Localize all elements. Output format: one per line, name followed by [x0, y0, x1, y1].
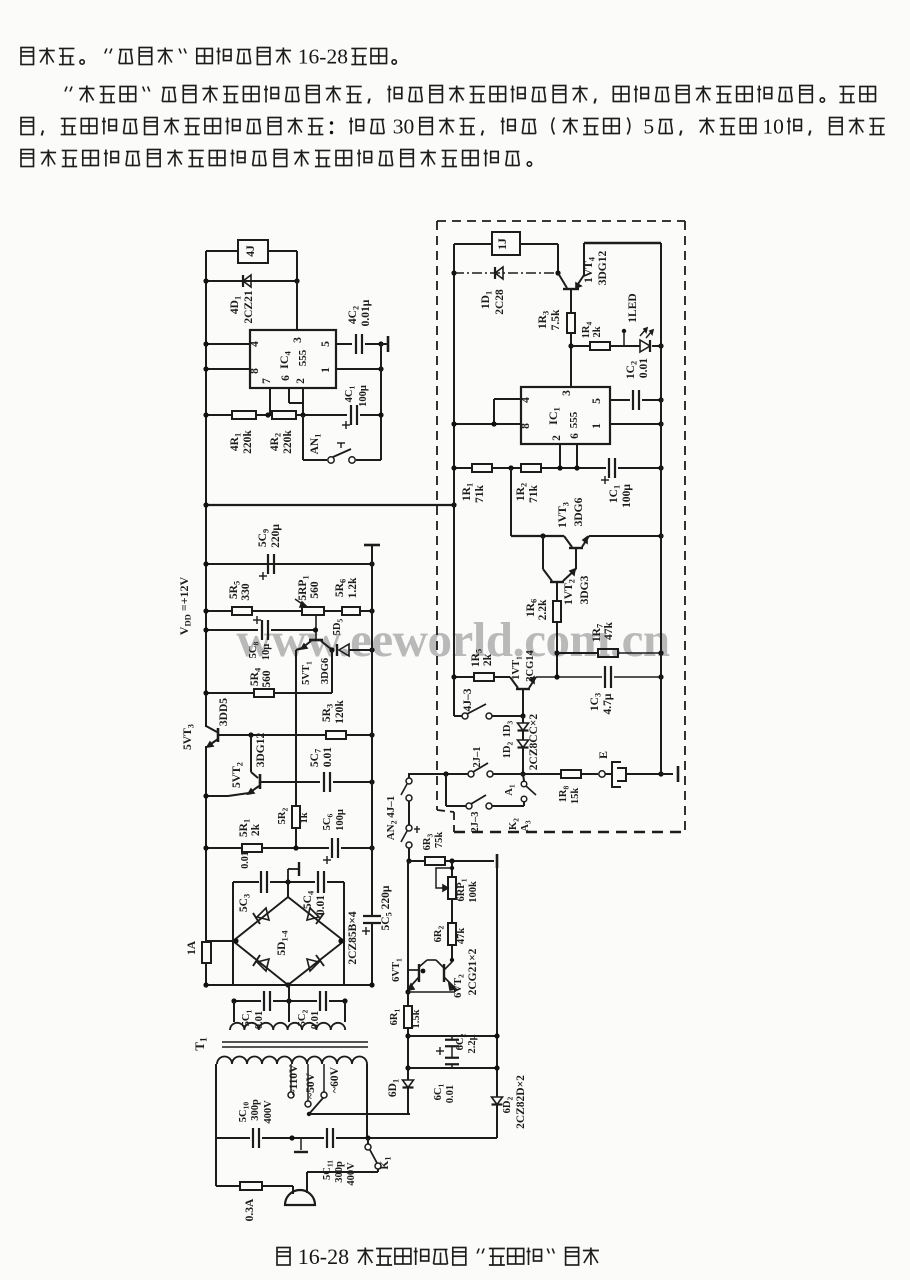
wire left rail upper	[205, 251, 207, 727]
wire pin4 of IC1	[494, 398, 521, 400]
capacitor 5C3 0.01	[260, 871, 262, 893]
svg-text:5: 5	[643, 115, 654, 139]
op-amp U: IC1 555 timer box	[521, 387, 610, 444]
diode 6D1	[403, 1080, 414, 1088]
resistor 6R1 1.5k	[404, 1006, 412, 1028]
node switch net	[520, 771, 525, 776]
resistor 4R2 220k	[272, 411, 296, 419]
wire 5R1 row	[206, 847, 242, 849]
svg-text:3: 3	[561, 390, 573, 396]
wire mains row	[216, 1137, 250, 1139]
wire diode row	[206, 280, 297, 282]
diode 6D2 2CZ82D x2	[492, 1097, 503, 1105]
node 6C2 row left	[405, 1033, 410, 1038]
svg-text:~110V: ~110V	[288, 1064, 300, 1096]
diamond of bridge 5D1-4	[233, 897, 344, 985]
node 4C1 right	[378, 412, 383, 417]
svg-text:E: E	[596, 751, 610, 759]
svg-text:1LED: 1LED	[627, 293, 639, 322]
svg-text:100μ: 100μ	[621, 484, 633, 508]
wire 5R4 row	[206, 692, 254, 694]
node rail left	[203, 502, 208, 507]
svg-text:220k: 220k	[282, 430, 294, 454]
wire secondary right drop	[344, 1001, 346, 1022]
node bridge top center	[285, 879, 290, 884]
LED arrows	[640, 329, 646, 336]
svg-text:100k: 100k	[468, 881, 479, 903]
svg-text:0.01: 0.01	[445, 1085, 456, 1103]
node pin2/4R2	[300, 412, 305, 417]
svg-text:4: 4	[520, 397, 532, 403]
node pin8/rail	[451, 421, 456, 426]
capacitor 5C10	[252, 1128, 254, 1148]
wire wiper to 6-section	[309, 1113, 410, 1115]
svg-text:1: 1	[591, 423, 603, 429]
fuse 0.3A	[240, 1182, 262, 1190]
wire 1R7 row	[557, 652, 598, 654]
relay 1J	[492, 232, 520, 255]
transformer T1 primary coil	[217, 1057, 367, 1065]
LED 1LED	[622, 329, 626, 333]
bridge box left edge	[232, 882, 234, 985]
wire 1R8 row	[523, 773, 561, 775]
node right leg row taps	[494, 1033, 499, 1038]
tap ~50V	[307, 1064, 309, 1101]
node 1C1 at rail	[658, 465, 663, 470]
node pin5 at rail	[658, 397, 663, 402]
resistor 6R3 75k	[425, 857, 445, 865]
svg-text:4.7μ: 4.7μ	[602, 693, 614, 714]
op-amp U: IC4 555 timer box	[250, 330, 336, 388]
capacitor 5C2 0.01	[319, 991, 321, 1011]
wire secondary filter row	[234, 1000, 261, 1002]
node 1R7 at rail	[658, 650, 663, 655]
svg-text:220k: 220k	[242, 430, 254, 454]
svg-text:0.01: 0.01	[322, 747, 334, 767]
resistor 1R5 2k	[474, 673, 494, 681]
wire pin3 of IC4	[296, 281, 298, 330]
diode 1D2	[522, 731, 524, 740]
svg-text:1J: 1J	[497, 238, 509, 250]
paragraph text line 3	[21, 118, 34, 135]
switch A1	[523, 774, 524, 781]
node row left at rail	[451, 465, 456, 470]
resistor 5R4 560	[254, 689, 274, 697]
node 1VT3 at rail	[658, 533, 663, 538]
transistor 1VT2 3DG3	[542, 536, 544, 569]
wire primary right leg	[366, 1064, 368, 1138]
wire pin4 of IC4	[206, 343, 250, 345]
svg-text:1k: 1k	[299, 812, 310, 823]
resistor 5R2 1k	[292, 806, 300, 828]
switch AN1 pushbutton	[328, 457, 334, 463]
svg-text:3DG12: 3DG12	[255, 733, 267, 768]
wire bridge left corner to rail	[206, 940, 233, 942]
node 5VT2 base tap	[248, 732, 253, 737]
node diode chain top	[520, 713, 525, 718]
svg-text:10μ: 10μ	[261, 644, 272, 661]
svg-text:AN2 4J–1: AN2 4J–1	[385, 796, 399, 841]
capacitor 6C2 2.2u	[445, 1039, 459, 1041]
bridge box right edge	[343, 882, 345, 985]
svg-text:2CZ85B×4: 2CZ85B×4	[347, 911, 359, 964]
diode 5D2 in bridge	[307, 908, 319, 920]
selector wiper	[309, 1098, 323, 1114]
node E at rail	[658, 771, 663, 776]
dashed enclosure right edge	[684, 221, 686, 832]
node sec mid	[286, 998, 291, 1003]
svg-text:3DD5: 3DD5	[218, 698, 230, 726]
wire plug to K1	[307, 1171, 378, 1173]
transistor 1VT4 3DG12	[563, 288, 579, 290]
capacitor 5C7 0.01	[323, 772, 325, 792]
svg-text:3DG6: 3DG6	[573, 497, 585, 526]
wire row continues to 1C3	[536, 676, 602, 678]
svg-text:0.01μ: 0.01μ	[360, 299, 372, 326]
svg-text:2k: 2k	[250, 823, 262, 836]
chassis ground right of E	[661, 773, 673, 775]
wire pin5 of IC4	[336, 343, 352, 345]
svg-text:1A: 1A	[186, 940, 198, 955]
svg-text:220μ: 220μ	[270, 524, 282, 548]
node 1C3 at rail	[658, 674, 663, 679]
svg-text:30: 30	[393, 115, 415, 139]
wire pin7 of IC4	[269, 388, 271, 415]
svg-text:2.2k: 2.2k	[537, 599, 549, 620]
node row at left rail	[451, 674, 456, 679]
transistor 1VT3 3DG6	[564, 536, 572, 547]
svg-text:2J–1: 2J–1	[472, 747, 483, 768]
diode 5D5	[336, 644, 338, 656]
transistor 5VT1 3DG6	[309, 639, 323, 642]
node 1R4 right at rail	[658, 343, 663, 348]
diode 5D3 in bridge	[257, 959, 269, 971]
svg-text:3DG12: 3DG12	[597, 251, 609, 286]
node 1VT4 base top	[555, 270, 560, 275]
wire right leg of 6-section	[496, 868, 498, 1097]
svg-text:560: 560	[261, 670, 273, 688]
diode 1D3	[522, 716, 524, 723]
node 4R1/4R2	[265, 412, 270, 417]
svg-text:100μ: 100μ	[358, 385, 369, 407]
node 5R1/5C6	[293, 845, 298, 850]
svg-text:3CG14: 3CG14	[525, 650, 536, 682]
wire pin2 of IC4	[302, 388, 304, 415]
wire 1J to 1VT4	[520, 243, 558, 245]
node 5C8 at base riser	[313, 627, 318, 632]
svg-text:3DG3: 3DG3	[579, 575, 591, 604]
node pin5 net	[378, 341, 383, 346]
wire mid rail x372	[371, 544, 373, 916]
svg-text:0.3A: 0.3A	[244, 1198, 256, 1221]
svg-text:2CZ21: 2CZ21	[243, 290, 255, 323]
tap ~60V	[323, 1064, 325, 1092]
node at x446	[443, 771, 448, 776]
svg-text:47k: 47k	[456, 928, 467, 945]
wire down to 6R1	[407, 992, 409, 1006]
resistor 5R3 120k	[326, 731, 346, 739]
svg-text:75k: 75k	[434, 832, 445, 849]
transistor 5VT2 3DG12	[250, 735, 252, 772]
svg-text:5C5 220μ: 5C5 220μ	[380, 885, 394, 930]
resistor 1R6 2.2k	[553, 601, 561, 622]
node 1R3/1R4/pin3	[568, 343, 573, 348]
node at rail/4D1	[203, 278, 208, 283]
wire 1R5/1VT1/1C3 row	[454, 676, 474, 678]
svg-text:300p: 300p	[250, 1099, 261, 1121]
wire pin6 of IC1	[576, 444, 578, 468]
svg-text:71k: 71k	[528, 484, 540, 503]
wire AN2 top row	[408, 773, 468, 775]
transformer T1 core lines	[222, 1041, 368, 1043]
potentiometer 5RP1 560	[302, 607, 324, 615]
node 1R1/1R2 junction	[508, 465, 513, 470]
diode 5D1 in bridge	[257, 908, 269, 920]
switch chain AN2 4J-1	[406, 778, 412, 784]
node rail/4R1	[203, 412, 208, 417]
svg-text:8: 8	[520, 423, 532, 429]
capacitor 5C9 220u	[267, 554, 269, 574]
svg-text:2k: 2k	[482, 653, 494, 666]
svg-text:330: 330	[240, 583, 252, 601]
ground stub right of 4C2	[381, 343, 388, 345]
transistor 5VT3 3DD5 (series pass)	[217, 728, 220, 742]
switch 2J-1	[468, 771, 474, 777]
svg-text:10: 10	[762, 115, 784, 139]
svg-text:~60V: ~60V	[329, 1066, 341, 1092]
mains plug	[285, 1190, 315, 1205]
resistor 5R6 1.2k	[342, 607, 360, 615]
capacitor 5C5 220u	[363, 915, 381, 917]
svg-text:~50V: ~50V	[305, 1072, 317, 1098]
svg-text:16-28: 16-28	[298, 1244, 349, 1269]
wire diamond top to box	[287, 882, 289, 897]
node 5VT2 emitter at rail	[203, 793, 208, 798]
wire 4J top left	[206, 250, 238, 252]
wire pin8 of IC4	[206, 368, 250, 370]
wire to lower switch	[445, 774, 447, 806]
tap ~110V	[290, 1064, 292, 1092]
node 5VT1 collector/diode	[329, 647, 334, 652]
svg-text:2k: 2k	[592, 326, 603, 337]
wire 6R3 row	[408, 860, 425, 862]
diode 5D4 in bridge	[307, 959, 319, 971]
diode 1D1 2C28	[495, 267, 503, 279]
node 1VT2 base riser	[540, 533, 545, 538]
svg-text:4J–3: 4J–3	[462, 688, 474, 711]
wire AN1 row	[302, 415, 304, 460]
wire bridge to secondary center	[288, 986, 290, 1022]
svg-text:7: 7	[261, 378, 273, 384]
wire 1VT3 collector row right	[589, 535, 661, 537]
capacitor 4C2 0.01u	[355, 334, 357, 354]
node 6VT1 collector	[421, 969, 426, 974]
wire 5R5 row	[206, 610, 232, 612]
ground stub below mains row	[300, 1138, 302, 1150]
wire left rail lower	[205, 746, 207, 942]
capacitor 5C6 100u	[331, 838, 333, 858]
node pin2 tap	[557, 465, 562, 470]
node at 4D1/pin3	[294, 278, 299, 283]
node 6R2 bottom	[450, 958, 454, 962]
wire 5VT1 emitter vertical	[295, 650, 297, 806]
pushbutton bar of AN2	[414, 828, 420, 830]
transformer T1 secondary coil	[230, 1023, 345, 1030]
svg-text:2: 2	[551, 435, 563, 441]
svg-text:100μ: 100μ	[335, 809, 346, 831]
node 6RP1 top tap	[450, 866, 454, 870]
wire 1VT3 collector row left	[511, 535, 564, 537]
svg-text:71k: 71k	[474, 484, 486, 503]
svg-text:2CZ82D×2: 2CZ82D×2	[515, 1075, 527, 1129]
capacitor 1C2 0.01	[632, 390, 634, 410]
transistor 6VT2	[443, 964, 445, 982]
electrode E terminal	[599, 771, 605, 777]
node 6R3/6RP1	[449, 858, 454, 863]
wire 5C9 row	[206, 563, 372, 565]
svg-text:3: 3	[292, 337, 304, 343]
node 1R6 bottom tap	[554, 674, 559, 679]
wire 1R1 junction down to 1VT2 base	[510, 468, 512, 536]
svg-text:120k: 120k	[334, 700, 346, 724]
svg-text:2J–3: 2J–3	[470, 812, 481, 833]
svg-text:7.5k: 7.5k	[550, 309, 562, 330]
resistor 1R7 47k	[598, 649, 618, 657]
wire secondary left drop	[233, 1001, 235, 1022]
wire pin1 of IC1	[610, 423, 661, 425]
wire 1-section left rail	[453, 244, 455, 716]
capacitor 5C8 10u	[261, 620, 263, 640]
capacitor 6C1 0.01	[445, 1057, 459, 1059]
node pin6 tap	[574, 465, 579, 470]
svg-text:2CZ8CC×2: 2CZ8CC×2	[528, 714, 540, 771]
svg-text:400V: 400V	[263, 1100, 274, 1124]
wire primary left leg	[215, 1064, 217, 1186]
resistor 5R1 2k	[242, 844, 262, 852]
wire 6C2 row	[408, 1035, 497, 1037]
switch 2J-3	[466, 803, 472, 809]
svg-text:0.01: 0.01	[315, 895, 327, 915]
svg-text:6: 6	[280, 375, 292, 381]
node 1R6/1R7 junction	[554, 650, 559, 655]
svg-text:4: 4	[249, 341, 261, 347]
svg-text:5: 5	[320, 341, 332, 347]
paragraph text line 1	[21, 48, 34, 65]
wire 5VT3 base row (5R3)	[219, 734, 326, 736]
dashed enclosure top edge	[437, 220, 685, 222]
capacitor 4C1 100u electrolytic	[350, 405, 352, 425]
svg-text:2C28: 2C28	[494, 289, 506, 315]
wire 1J feed	[454, 243, 492, 245]
svg-text:5: 5	[591, 398, 603, 404]
capacitor 5C4 0.01	[317, 871, 319, 893]
wire +12V distribution rail	[206, 504, 454, 506]
wire left rail of 6-section	[407, 861, 409, 992]
wire 5VT1 collector to 5R4	[331, 650, 333, 693]
node pin8/pin4 tie	[491, 421, 496, 426]
wire 1R1/1R2 row	[454, 467, 472, 469]
fuse 1A	[202, 942, 211, 963]
potentiometer 6RP1 100k	[448, 877, 456, 899]
wire pin1 of IC4	[336, 368, 381, 370]
switch 4J-3	[454, 715, 462, 717]
transistor 6VT1	[418, 964, 420, 982]
node bridge bottom	[285, 982, 290, 987]
dashed enclosure jog	[437, 810, 454, 812]
capacitor 5C11 300p 400V	[326, 1128, 328, 1148]
svg-text:555: 555	[297, 349, 309, 366]
ground stub above bridge	[287, 869, 289, 882]
wire emitters join	[454, 988, 456, 992]
caption 图16-28	[277, 1248, 290, 1266]
svg-text:555: 555	[568, 411, 580, 428]
node AN2 bottom	[408, 848, 410, 861]
dashed enclosure left edge	[436, 221, 438, 810]
svg-text:15k: 15k	[570, 788, 581, 805]
wire pin6 of IC4	[288, 388, 290, 403]
switch K1	[365, 1144, 371, 1150]
wire bottom row to fuse	[216, 1185, 240, 1187]
node bridge left corner	[233, 938, 238, 943]
paragraph text line 4	[21, 150, 34, 167]
wire pin8 of IC1	[454, 423, 521, 425]
node bridge right corner	[338, 938, 343, 943]
transistor 1VT1 3CG14	[510, 677, 518, 688]
svg-text:1.5k: 1.5k	[411, 1009, 422, 1028]
resistor 1R4 2k	[590, 342, 610, 350]
resistor 1R1 71k	[472, 464, 492, 472]
wire 4J to pin3 drop	[268, 250, 297, 252]
node mains row left-mid	[289, 1135, 294, 1140]
wire 1R4 row	[571, 345, 590, 347]
svg-text:6: 6	[569, 433, 581, 439]
node sec right	[342, 998, 347, 1003]
svg-text:0.01: 0.01	[240, 851, 251, 869]
node pin1 at rail	[658, 421, 663, 426]
ground bar right end	[496, 854, 499, 868]
svg-text:1.2k: 1.2k	[347, 577, 359, 598]
capacitor 5C1 0.01	[263, 991, 265, 1011]
node sec left	[231, 998, 236, 1003]
resistor 6R2 47k	[448, 923, 456, 945]
node 6C1 row left	[405, 1065, 410, 1070]
svg-text:2.2μ: 2.2μ	[467, 1034, 478, 1053]
svg-text:3DG6: 3DG6	[320, 658, 331, 684]
svg-text:2CG21×2: 2CG21×2	[467, 948, 479, 995]
wire pin2 of IC1	[559, 444, 561, 468]
wire 1-section right rail	[660, 243, 662, 774]
svg-text:47k: 47k	[603, 621, 615, 640]
svg-text:8: 8	[249, 368, 261, 374]
resistor 1R2 71k	[521, 464, 541, 472]
svg-text:4J: 4J	[245, 245, 257, 257]
wire 5RP1 wiper drop	[315, 615, 317, 640]
diode 4D1 2CZ21	[243, 275, 251, 287]
svg-text:1: 1	[320, 367, 332, 373]
node mains row right-mid	[365, 1135, 370, 1140]
capacitor 1C1 100u	[608, 458, 610, 478]
wire 6RP1 branch	[451, 861, 453, 877]
resistor 5R5 330	[232, 607, 252, 615]
svg-text:400V: 400V	[346, 1162, 357, 1186]
wire 4R row	[206, 414, 232, 416]
paragraph text line 2	[65, 87, 67, 92]
svg-text:16-28: 16-28	[298, 45, 348, 69]
wire top rail of 1-section	[584, 242, 661, 244]
wire pin5 of IC1	[610, 399, 630, 401]
svg-text:560: 560	[309, 581, 321, 599]
resistor 1R3 7.5k	[567, 313, 575, 333]
